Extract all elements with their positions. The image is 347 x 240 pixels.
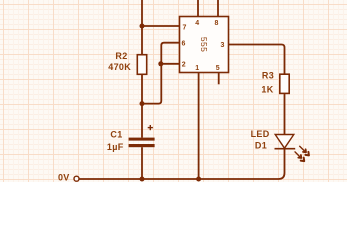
resistor R2 [137,55,146,75]
wire pin 2 [161,63,180,65]
wire R2 bottom to C1 [141,74,143,137]
svg-text:1µF: 1µF [107,142,124,152]
wire pin 5 stub [218,73,220,85]
svg-text:2: 2 [182,61,186,68]
junction node C1/0V [140,177,145,182]
junction node pin2/pin6 [158,61,163,66]
svg-text:3: 3 [221,42,225,49]
svg-text:8: 8 [215,20,219,27]
wire pin 7 [142,25,180,27]
svg-text:555: 555 [199,37,209,52]
LED D1 triangle [275,135,294,149]
0V terminal circle [74,176,79,181]
junction node pin1/0V [196,177,201,182]
svg-text:4: 4 [195,20,199,27]
resistor R3 [280,74,289,93]
LED light arrow lower [295,152,304,161]
svg-text:7: 7 [183,25,187,32]
junction node R2/C1 [140,101,145,106]
svg-text:6: 6 [182,41,186,48]
svg-text:D1: D1 [255,141,267,151]
C1 plus sign [148,125,153,130]
wire pin 3 to R3 [229,45,285,75]
svg-text:R2: R2 [115,51,127,61]
wire supply to R2 top [141,0,143,55]
svg-text:1: 1 [195,65,199,72]
wire C1 bottom to 0V rail [141,147,143,179]
svg-text:0V: 0V [58,173,70,183]
wire pin 4 [197,0,199,17]
junction node R2/pin7 [140,24,145,29]
LED light arrow upper [300,146,309,155]
svg-text:1K: 1K [261,85,273,95]
wire 0V rail [79,148,284,179]
wire pin 8 [217,0,219,17]
wire pin 1 to 0V rail [198,73,200,180]
capacitor C1 top plate [129,138,155,141]
wire R3 to LED [284,93,286,134]
capacitor C1 bottom plate [129,144,155,147]
op-amp U1 555 chip body [180,17,229,73]
svg-text:LED: LED [251,129,270,139]
svg-text:C1: C1 [110,130,122,140]
LED D1 cathode bar [275,148,296,150]
svg-text:470K: 470K [108,62,131,72]
wire pin 6 [142,43,180,104]
svg-text:R3: R3 [262,71,274,81]
svg-text:5: 5 [216,65,220,72]
